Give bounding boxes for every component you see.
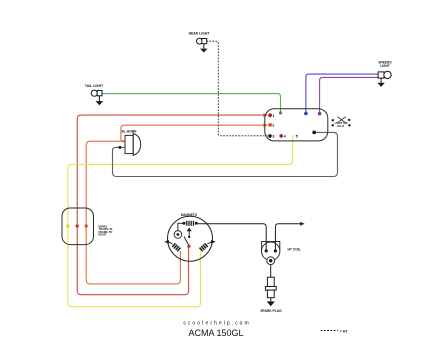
wire: purple switch to speedo light xyxy=(320,77,379,113)
legend: dashed wire key xyxy=(321,330,339,332)
svg-text:HI-LO: HI-LO xyxy=(337,124,344,128)
bulb: tail light xyxy=(91,90,97,96)
svg-text:ACMA 150GL: ACMA 150GL xyxy=(188,328,243,338)
lighting coil left (hatched) xyxy=(172,243,180,251)
component: spark plug xyxy=(267,277,274,286)
wire: red main (pin1 to magneto via junction box) xyxy=(77,115,267,295)
component: magneto flywheel xyxy=(168,216,213,261)
arrowhead orange into horn xyxy=(122,140,125,143)
node: blue dot xyxy=(304,112,308,116)
diagonal points lever xyxy=(184,236,189,245)
svg-text:TAIL LIGHT: TAIL LIGHT xyxy=(85,84,104,88)
ground: tail light xyxy=(98,96,100,101)
bulb: head light xyxy=(197,38,203,44)
node: green dot xyxy=(279,111,282,114)
ground: speedo light xyxy=(380,78,382,82)
svg-text:HT COIL: HT COIL xyxy=(288,248,301,252)
wire: coil to points xyxy=(178,223,184,230)
lighting coil right (hatched) xyxy=(200,243,208,251)
svg-text:= HT: = HT xyxy=(340,329,349,333)
component: horn xyxy=(125,135,133,153)
wire: orange horn to magneto via junction box xyxy=(86,141,180,284)
pin 4 xyxy=(279,134,283,138)
pin 1 xyxy=(268,113,272,117)
wire: black headset switch to horn ground loop xyxy=(113,132,338,176)
node: coil right dot xyxy=(195,222,198,225)
svg-text:scooterhelp.com: scooterhelp.com xyxy=(183,321,250,327)
arrow right out xyxy=(207,242,211,244)
wire: coil to spark plug xyxy=(270,265,272,278)
node: purple dot xyxy=(318,112,322,116)
component: headset light switch box xyxy=(265,109,328,141)
svg-text:MAGNETO: MAGNETO xyxy=(181,213,198,217)
node: coil left dot xyxy=(183,222,186,225)
arrowhead red into pin1 xyxy=(263,113,267,117)
node: orange junction dot xyxy=(85,224,88,227)
arrowhead orange into pin2 xyxy=(263,123,267,127)
icon: light switch in headset xyxy=(338,117,346,123)
node: yellow junction dot xyxy=(66,224,69,227)
pin 3 xyxy=(268,134,272,138)
svg-text:SPARK PLUG: SPARK PLUG xyxy=(260,309,282,313)
wire: blue switch to speedo light xyxy=(306,74,378,113)
points circle xyxy=(174,231,182,239)
junction dot on horn ground wire xyxy=(118,146,121,149)
wire: HT coil kill lead with arrow xyxy=(275,224,300,251)
svg-text:HEAD LIGHT: HEAD LIGHT xyxy=(189,32,211,36)
wire: yellow pin5 to magneto via junction box xyxy=(68,135,293,307)
svg-text:EL.HORN: EL.HORN xyxy=(122,130,137,134)
node: red dot in magneto xyxy=(187,245,190,248)
wire: green tail-light to switch xyxy=(102,94,281,113)
arrow left out xyxy=(169,242,173,244)
svg-text:LIGHT: LIGHT xyxy=(380,64,390,68)
cam arrow xyxy=(188,231,190,236)
node: black dot (horn button) xyxy=(312,131,316,135)
wire: HT magneto to coil xyxy=(196,224,266,251)
component: HT coil xyxy=(262,242,280,251)
svg-text:REAR: REAR xyxy=(98,233,106,237)
bulb: speedo light xyxy=(378,72,384,78)
node: red junction dot xyxy=(76,224,79,227)
ignition source coil bars xyxy=(187,221,194,226)
ground: head light xyxy=(203,44,205,49)
wire: orange pin2 branch to horn xyxy=(121,125,267,141)
pin 2 xyxy=(268,123,272,127)
wire: dashed headlight to pin3 xyxy=(206,41,269,136)
component: junction box xyxy=(62,208,94,245)
